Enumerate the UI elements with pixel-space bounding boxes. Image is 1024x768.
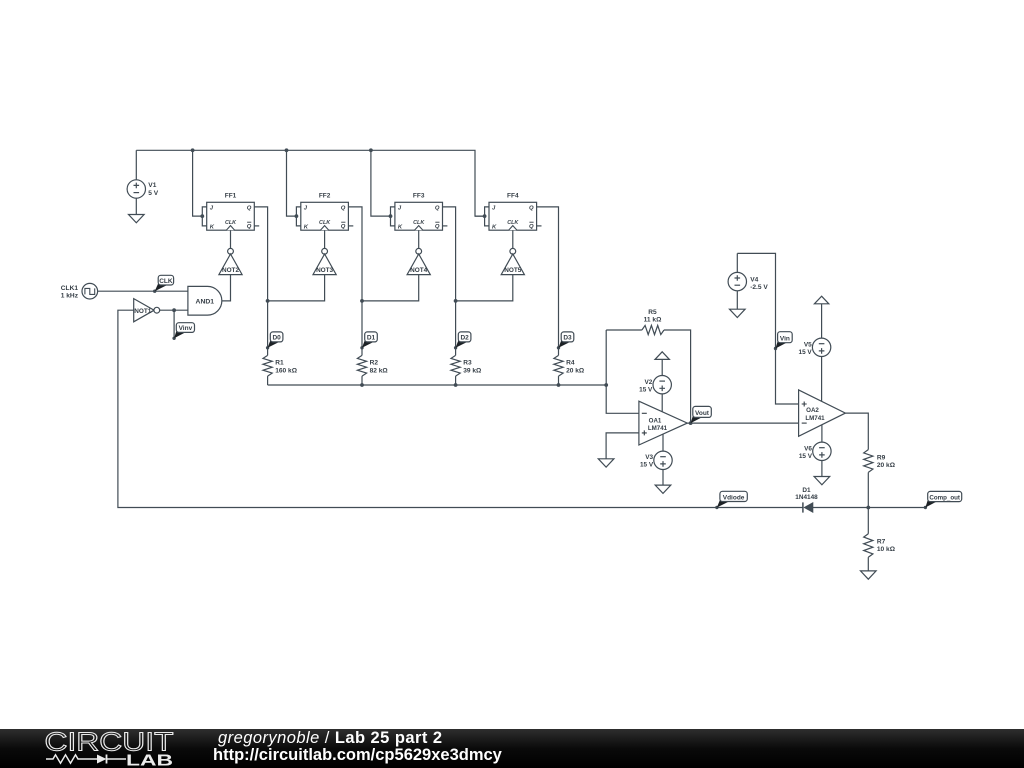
wire: V4 to OA2 non-inverting input (Vin) bbox=[737, 253, 798, 404]
svg-text:D3: D3 bbox=[563, 335, 572, 342]
supply arrow above V2 bbox=[655, 352, 669, 360]
svg-text:Q: Q bbox=[435, 224, 440, 230]
svg-text:39 kΩ: 39 kΩ bbox=[463, 368, 482, 375]
wire: FF4 Q output to column D3 bbox=[537, 207, 559, 356]
svg-text:NOT2: NOT2 bbox=[222, 267, 239, 274]
svg-text:82 kΩ: 82 kΩ bbox=[370, 368, 389, 375]
wire: supply drop to FF2 J/K bbox=[287, 150, 297, 216]
flag CLK bbox=[153, 290, 156, 293]
svg-text:Q: Q bbox=[247, 224, 252, 230]
voltage source V3 15V bbox=[662, 434, 664, 451]
wire: supply drop to FF1 J/K bbox=[193, 150, 203, 216]
JK flip-flop FF1 bbox=[202, 193, 259, 231]
svg-text:CLK1: CLK1 bbox=[61, 285, 79, 292]
ground below V1 bbox=[129, 215, 145, 223]
wire: D2 column to NOT5 input bbox=[456, 275, 513, 301]
resistor R5 11 kOhm feedback bbox=[606, 309, 690, 423]
ground at OA1 + input bbox=[598, 459, 614, 467]
svg-text:K: K bbox=[304, 224, 309, 230]
svg-text:CLK: CLK bbox=[225, 220, 237, 226]
svg-text:20 kΩ: 20 kΩ bbox=[566, 368, 585, 375]
wire: D1 column to NOT4 input bbox=[362, 275, 419, 301]
svg-text:Q: Q bbox=[341, 224, 346, 230]
svg-text:V3: V3 bbox=[645, 454, 653, 461]
resistor R3 39 kΩ bbox=[451, 355, 482, 385]
inverter NOT5 bbox=[501, 230, 524, 274]
AND gate AND1 bbox=[188, 286, 222, 315]
flag D0 bbox=[266, 346, 269, 349]
resistor R9 20 kOhm bbox=[864, 450, 896, 508]
svg-text:D1: D1 bbox=[367, 335, 376, 342]
wire: D0 column to NOT3 input bbox=[268, 275, 325, 301]
svg-text:FF3: FF3 bbox=[413, 193, 425, 200]
wire: FF3 Q output to column D2 bbox=[443, 207, 456, 356]
svg-text:NOT5: NOT5 bbox=[504, 267, 521, 274]
resistor R4 20 kΩ bbox=[554, 355, 585, 385]
svg-text:R7: R7 bbox=[877, 539, 886, 546]
voltage source V4 -2.5V bbox=[736, 253, 738, 272]
svg-text:10 kΩ: 10 kΩ bbox=[877, 546, 896, 553]
svg-text:15 V: 15 V bbox=[639, 386, 653, 393]
svg-text:V1: V1 bbox=[148, 182, 156, 189]
flag Vinv bbox=[172, 337, 175, 340]
svg-text:Q: Q bbox=[529, 224, 534, 230]
svg-text:1 kHz: 1 kHz bbox=[61, 292, 79, 299]
ground below V6 bbox=[814, 477, 830, 485]
svg-text:D1: D1 bbox=[802, 487, 811, 494]
svg-text:NOT4: NOT4 bbox=[410, 267, 427, 274]
svg-text:V2: V2 bbox=[644, 379, 652, 386]
svg-text:R3: R3 bbox=[463, 360, 472, 367]
flag Vdiode bbox=[715, 506, 718, 509]
svg-text:-2.5 V: -2.5 V bbox=[750, 284, 768, 291]
svg-text:D2: D2 bbox=[460, 335, 469, 342]
wire: stub down to Vinv flag bbox=[173, 310, 175, 338]
inverter NOT3 bbox=[313, 230, 336, 274]
svg-text:AND1: AND1 bbox=[196, 298, 215, 305]
power rail from V1 to flip-flop supplies bbox=[136, 150, 484, 216]
svg-text:K: K bbox=[492, 224, 497, 230]
svg-text:LM741: LM741 bbox=[805, 415, 825, 422]
svg-text:1N4148: 1N4148 bbox=[795, 494, 818, 501]
wire: summing bus bbox=[268, 384, 607, 386]
op-amp OA2 LM741 bbox=[799, 390, 846, 436]
svg-text:NOT3: NOT3 bbox=[316, 267, 333, 274]
wire: supply drop to FF4 J/K bbox=[475, 215, 485, 217]
op-amp OA1 LM741 bbox=[639, 401, 687, 445]
wire: supply drop to FF3 J/K bbox=[371, 150, 391, 216]
svg-text:15 V: 15 V bbox=[799, 349, 813, 356]
inverter NOT4 bbox=[407, 230, 430, 274]
ground below V3 bbox=[655, 485, 671, 493]
svg-text:CLK: CLK bbox=[507, 220, 519, 226]
svg-text:Vinv: Vinv bbox=[179, 325, 193, 332]
flag Vout bbox=[691, 415, 703, 423]
wire: FF1 Q output to column D0 bbox=[254, 207, 267, 356]
svg-text:Q: Q bbox=[247, 205, 252, 211]
svg-text:CLK: CLK bbox=[319, 220, 331, 226]
svg-text:V5: V5 bbox=[804, 342, 812, 349]
resistor R1 160 kΩ bbox=[263, 355, 298, 385]
supply arrow above V5 bbox=[814, 296, 828, 304]
svg-text:R1: R1 bbox=[275, 360, 284, 367]
svg-text:20 kΩ: 20 kΩ bbox=[877, 462, 896, 469]
inverter NOT2 bbox=[219, 230, 242, 274]
svg-text:15 V: 15 V bbox=[799, 453, 813, 460]
wire: FF2 Q output to column D1 bbox=[348, 207, 362, 356]
svg-text:K: K bbox=[210, 224, 215, 230]
svg-text:15 V: 15 V bbox=[640, 462, 654, 469]
flag Vin bbox=[774, 347, 777, 350]
JK flip-flop FF4 bbox=[485, 193, 542, 231]
svg-text:R4: R4 bbox=[566, 360, 575, 367]
feedback wire from comparator node back to NOT1 input bbox=[118, 310, 803, 507]
wire: diode to comparator node and Comp_out bbox=[813, 507, 925, 509]
svg-text:Q: Q bbox=[435, 205, 440, 211]
voltage source V1 5V bbox=[135, 150, 137, 180]
svg-text:FF1: FF1 bbox=[225, 193, 237, 200]
svg-text:Comp_out: Comp_out bbox=[929, 494, 960, 501]
wire: NOT1 output to AND1 input bbox=[159, 309, 188, 311]
JK flip-flop FF3 bbox=[391, 193, 448, 231]
svg-text:Q: Q bbox=[341, 205, 346, 211]
flag D2 bbox=[454, 346, 457, 349]
svg-text:R9: R9 bbox=[877, 454, 886, 461]
flag D1 bbox=[360, 346, 363, 349]
svg-text:V6: V6 bbox=[804, 446, 812, 453]
voltage source V2 15V bbox=[661, 359, 663, 376]
svg-text:R2: R2 bbox=[370, 360, 379, 367]
wire: OA2 output down to R9 bbox=[845, 413, 868, 450]
svg-text:NOT1: NOT1 bbox=[134, 308, 151, 315]
diode D1 1N4148 bbox=[795, 487, 818, 513]
svg-text:160 kΩ: 160 kΩ bbox=[275, 368, 298, 375]
logo waveform: resistor and diode bbox=[46, 755, 97, 763]
svg-text:R5: R5 bbox=[648, 309, 657, 316]
wire: OA1 non-inverting input to ground bbox=[606, 433, 639, 459]
svg-text:CLK: CLK bbox=[159, 278, 173, 285]
svg-text:11 kΩ: 11 kΩ bbox=[644, 317, 662, 324]
flag Comp_out bbox=[924, 506, 927, 509]
svg-text:V4: V4 bbox=[750, 276, 758, 283]
ground below V4 bbox=[730, 309, 746, 317]
JK flip-flop FF2 bbox=[296, 193, 353, 231]
resistor R2 82 kΩ bbox=[357, 355, 388, 385]
clock source CLK1 1 kHz bbox=[82, 283, 98, 299]
svg-text:FF4: FF4 bbox=[507, 193, 519, 200]
inverter NOT1 bbox=[134, 299, 154, 322]
svg-text:OA1: OA1 bbox=[649, 418, 662, 425]
svg-text:OA2: OA2 bbox=[806, 407, 819, 414]
voltage source V6 15V bbox=[821, 425, 823, 443]
wire: CLK1 to AND1 input bbox=[98, 290, 188, 292]
svg-text:Vdiode: Vdiode bbox=[723, 494, 745, 501]
svg-text:LM741: LM741 bbox=[648, 425, 668, 432]
wire: bus node to OA1 inverting input / R5 feedback bbox=[606, 330, 639, 413]
svg-text:Q: Q bbox=[529, 205, 534, 211]
svg-text:FF2: FF2 bbox=[319, 193, 331, 200]
svg-text:K: K bbox=[398, 224, 403, 230]
svg-text:5 V: 5 V bbox=[148, 190, 158, 197]
svg-text:LAB: LAB bbox=[126, 753, 173, 768]
wire: AND1 output to NOT2 input bbox=[222, 275, 231, 301]
ground below R7 bbox=[861, 571, 877, 579]
svg-text:CLK: CLK bbox=[413, 220, 425, 226]
resistor R7 10 kOhm bbox=[864, 508, 896, 571]
flag D3 bbox=[557, 346, 560, 349]
svg-text:Vout: Vout bbox=[695, 410, 710, 417]
svg-text:Vin: Vin bbox=[780, 336, 790, 343]
wire: OA1 output to OA2 inverting input bbox=[687, 422, 798, 424]
svg-text:D0: D0 bbox=[272, 335, 281, 342]
voltage source V5 15V bbox=[821, 304, 823, 339]
